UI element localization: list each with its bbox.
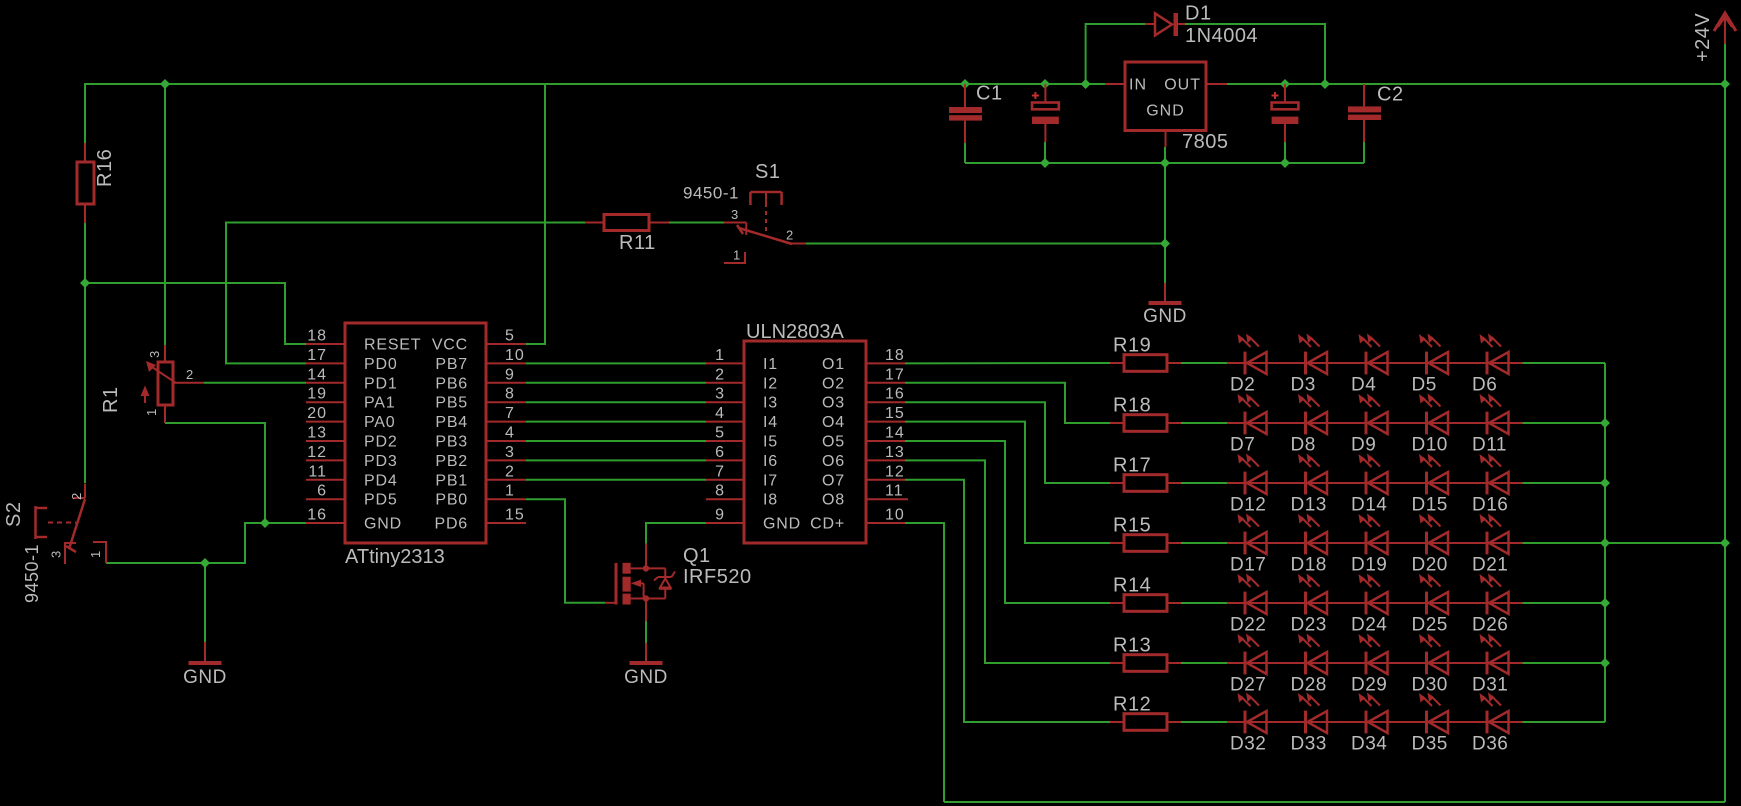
svg-text:R12: R12 [1113, 694, 1151, 716]
svg-text:2: 2 [505, 463, 515, 480]
svg-text:D19: D19 [1351, 555, 1387, 576]
wire resistor to LED row 5 [1181, 602, 1227, 604]
wire resistor to LED row 3 [1181, 482, 1227, 484]
svg-text:D13: D13 [1291, 495, 1327, 516]
svg-text:D36: D36 [1472, 734, 1508, 755]
pin 10 ATtiny right [486, 362, 526, 364]
svg-text:PB7: PB7 [435, 356, 468, 373]
wire resistor to LED row 1 [1181, 362, 1227, 364]
svg-text:PA1: PA1 [364, 395, 395, 412]
svg-text:GND: GND [1146, 103, 1185, 120]
svg-text:1: 1 [144, 408, 159, 416]
ground GND Q1 area [645, 643, 647, 661]
svg-text:3: 3 [731, 207, 739, 222]
wire LED row 1 to anode bus [1523, 362, 1606, 364]
svg-text:PB4: PB4 [435, 414, 468, 431]
svg-text:D6: D6 [1472, 375, 1497, 396]
wire +24V bottom [944, 801, 1725, 803]
LED D27 [1244, 652, 1247, 675]
wire PB0 pin1 to Q1 gate [526, 499, 605, 603]
pin 17 ULN right [866, 382, 905, 384]
wire R1 pin2 to PD1 pin14 [204, 382, 306, 384]
LED D14 [1365, 472, 1368, 495]
pin 1 ULN left [706, 362, 744, 364]
junction [1600, 538, 1610, 548]
svg-text:PD4: PD4 [364, 472, 398, 489]
resistor R11 [604, 215, 649, 231]
wire ULN O4 to R row 4 [905, 422, 1110, 543]
pin 3 ATtiny right [486, 459, 526, 461]
svg-text:17: 17 [307, 347, 327, 364]
junction [1160, 158, 1170, 168]
wire anode bus to +24V rail [1605, 542, 1725, 544]
junction [1280, 79, 1290, 89]
resistor R12 [1124, 714, 1167, 731]
svg-text:15: 15 [505, 507, 525, 524]
svg-text:I8: I8 [763, 492, 778, 509]
svg-text:OUT: OUT [1164, 77, 1201, 94]
pin 5 ULN left [706, 440, 744, 442]
svg-text:13: 13 [307, 425, 327, 442]
LED D12 [1244, 472, 1247, 495]
svg-text:18: 18 [885, 347, 905, 364]
svg-text:9: 9 [505, 366, 515, 383]
LED D26 [1486, 592, 1489, 615]
svg-text:R11: R11 [619, 232, 656, 254]
wire R1 pin1 down [165, 423, 265, 523]
svg-text:6: 6 [715, 444, 725, 461]
LED row 6 line [1227, 662, 1523, 664]
wire ULN O5 to R row 5 [905, 441, 1110, 603]
junction [1720, 538, 1730, 548]
switch S2 [84, 484, 86, 499]
wire PD0 pin17 to R11 [226, 223, 585, 364]
pin 20 ATtiny left [306, 421, 345, 423]
svg-text:I1: I1 [763, 356, 778, 373]
wire C1 bottom [964, 143, 966, 163]
svg-text:2: 2 [69, 492, 84, 500]
pin 9 ULN left [706, 522, 744, 524]
svg-text:D26: D26 [1472, 615, 1508, 636]
polarized capacitor C4 [1272, 103, 1299, 110]
svg-text:1N4004: 1N4004 [1185, 25, 1258, 47]
svg-text:R19: R19 [1113, 335, 1151, 357]
wire GND stub S2 area [204, 563, 206, 642]
svg-text:R13: R13 [1113, 635, 1151, 657]
svg-text:7: 7 [505, 405, 515, 422]
wire CD+ to bottom rail [905, 523, 944, 802]
LED row 1 line [1227, 362, 1523, 364]
svg-text:PD6: PD6 [434, 516, 468, 533]
wire resistor to LED row 4 [1181, 542, 1227, 544]
pin OUT 7805 [1206, 83, 1227, 85]
svg-text:GND: GND [1143, 306, 1187, 327]
pin 11 ULN right [866, 498, 908, 500]
LED D20 [1425, 532, 1428, 555]
LED D34 [1365, 711, 1368, 734]
wire LED row 2 to anode bus [1523, 422, 1606, 424]
svg-text:R18: R18 [1113, 395, 1151, 417]
svg-text:D17: D17 [1230, 555, 1266, 576]
svg-text:PD1: PD1 [364, 375, 398, 392]
wire +24V right rail [1724, 44, 1726, 802]
LED D17 [1244, 532, 1247, 555]
svg-text:GND: GND [624, 667, 668, 688]
svg-text:D22: D22 [1230, 615, 1266, 636]
svg-text:PB6: PB6 [435, 375, 468, 392]
svg-text:D33: D33 [1291, 734, 1327, 755]
LED D33 [1304, 711, 1307, 734]
wire LED row 6 to anode bus [1523, 662, 1606, 664]
svg-text:3: 3 [715, 386, 725, 403]
svg-text:VCC: VCC [432, 337, 468, 354]
polarized capacitor C3 [1032, 103, 1059, 110]
svg-text:IRF520: IRF520 [683, 566, 752, 588]
junction [1040, 79, 1050, 89]
pin 9 ATtiny right [486, 382, 526, 384]
svg-text:D29: D29 [1351, 675, 1387, 696]
LED row 2 line [1227, 422, 1523, 424]
pin 6 ATtiny left [306, 498, 345, 500]
capacitor C2 [1348, 106, 1381, 112]
svg-text:D28: D28 [1291, 675, 1327, 696]
potentiometer R1 [158, 362, 173, 405]
svg-text:1: 1 [88, 550, 103, 558]
svg-text:7805: 7805 [1182, 131, 1229, 153]
LED D30 [1425, 652, 1428, 675]
svg-text:D24: D24 [1351, 615, 1387, 636]
LED D24 [1365, 592, 1368, 615]
LED D22 [1244, 592, 1247, 615]
pin 8 ULN left [706, 498, 744, 500]
wire resistor to LED row 7 [1181, 721, 1227, 723]
wire LED row 3 to anode bus [1523, 482, 1606, 484]
svg-text:7: 7 [715, 463, 725, 480]
svg-text:3: 3 [49, 550, 64, 558]
resistor R13 [1124, 655, 1167, 672]
svg-text:GND: GND [763, 516, 801, 533]
svg-text:O8: O8 [822, 492, 845, 509]
svg-text:12: 12 [307, 444, 327, 461]
pin 7 ULN left [706, 479, 744, 481]
svg-text:12: 12 [885, 463, 905, 480]
wire capacitor bottom bus [965, 162, 1364, 164]
svg-text:18: 18 [307, 328, 327, 345]
svg-text:D18: D18 [1291, 555, 1327, 576]
wire R11 to S1 pin3 [669, 222, 724, 224]
LED D4 [1365, 352, 1368, 375]
svg-text:9450-1: 9450-1 [22, 544, 42, 603]
svg-text:D2: D2 [1230, 375, 1255, 396]
wire ULN O3 to R row 3 [905, 402, 1110, 483]
svg-text:S1: S1 [755, 161, 780, 183]
svg-text:D27: D27 [1230, 675, 1266, 696]
pin 2 ULN left [706, 382, 744, 384]
svg-text:D34: D34 [1351, 734, 1387, 755]
svg-text:GND: GND [364, 516, 402, 533]
LED D32 [1244, 711, 1247, 734]
wire LED row 7 to anode bus [1523, 721, 1606, 723]
svg-text:8: 8 [715, 483, 725, 500]
svg-text:GND: GND [183, 667, 227, 688]
junction [1600, 598, 1610, 608]
LED D10 [1425, 412, 1428, 435]
LED D23 [1304, 592, 1307, 615]
pin 19 ATtiny left [306, 401, 345, 403]
wire 7805 GND [1164, 147, 1166, 163]
LED row 5 line [1227, 602, 1523, 604]
wire C3 bottom [1044, 142, 1046, 163]
junction [80, 278, 90, 288]
LED D36 [1486, 711, 1489, 734]
svg-text:+24V: +24V [1692, 13, 1714, 62]
wire Q1 source to GND [645, 621, 647, 643]
svg-text:9: 9 [715, 507, 725, 524]
svg-text:15: 15 [885, 405, 905, 422]
LED D15 [1425, 472, 1428, 495]
svg-text:PD0: PD0 [364, 356, 398, 373]
svg-text:D21: D21 [1472, 555, 1508, 576]
svg-text:16: 16 [307, 507, 327, 524]
svg-text:ATtiny2313: ATtiny2313 [345, 546, 445, 568]
wire ULN O6 to R row 6 [905, 460, 1110, 663]
IC U1 ATtiny2313 body [345, 323, 486, 543]
pin 3 ULN left [706, 401, 744, 403]
svg-text:16: 16 [885, 386, 905, 403]
wire +24V top rail [84, 83, 1105, 85]
pin 10 ULN right [866, 522, 905, 524]
resistor R19 [1124, 355, 1167, 372]
pin 15 ULN right [866, 421, 905, 423]
pin 5 ATtiny right [486, 343, 526, 345]
pin 2 ATtiny right [486, 479, 526, 481]
svg-text:D14: D14 [1351, 495, 1387, 516]
svg-text:D31: D31 [1472, 675, 1508, 696]
wire VCC pin 5 [526, 84, 545, 344]
junction [260, 518, 270, 528]
svg-text:14: 14 [307, 366, 327, 383]
resistor R14 [1124, 595, 1167, 612]
LED D16 [1486, 472, 1489, 495]
svg-text:O4: O4 [822, 414, 845, 431]
svg-text:PB3: PB3 [435, 434, 468, 451]
svg-text:R15: R15 [1113, 515, 1151, 537]
LED row 4 line [1227, 542, 1523, 544]
wire D1 bypass right [1185, 24, 1325, 84]
junction [1081, 79, 1091, 89]
svg-text:I3: I3 [763, 395, 778, 412]
svg-text:R1: R1 [100, 386, 122, 413]
pin 13 ULN right [866, 459, 905, 461]
LED D31 [1486, 652, 1489, 675]
svg-text:14: 14 [885, 425, 905, 442]
wire LED row 5 to anode bus [1523, 602, 1606, 604]
svg-text:I5: I5 [763, 434, 778, 451]
svg-text:D16: D16 [1472, 495, 1508, 516]
wire left vertical R16 top [84, 84, 86, 143]
svg-text:1: 1 [733, 248, 741, 263]
wire resistor to LED row 2 [1181, 422, 1227, 424]
junction [1160, 239, 1170, 249]
LED D13 [1304, 472, 1307, 495]
LED row 3 line [1227, 482, 1523, 484]
LED D6 [1486, 352, 1489, 375]
svg-text:D9: D9 [1351, 435, 1376, 456]
svg-text:ULN2803A: ULN2803A [746, 321, 845, 343]
LED D9 [1365, 412, 1368, 435]
LED D8 [1304, 412, 1307, 435]
pin 16 ULN right [866, 401, 905, 403]
LED D11 [1486, 412, 1489, 435]
wire PB1 to ULN I7 [526, 479, 706, 481]
svg-text:R17: R17 [1113, 455, 1151, 477]
wire R1 pin3 from rail [164, 84, 166, 345]
svg-text:11: 11 [308, 463, 327, 480]
pin 7 ATtiny right [486, 421, 526, 423]
switch S1 [724, 222, 746, 224]
svg-text:17: 17 [885, 366, 905, 383]
pin 6 ULN left [706, 459, 744, 461]
svg-text:D10: D10 [1412, 435, 1448, 456]
wire ULN O7 to R row 7 [905, 480, 1110, 722]
svg-text:D1: D1 [1185, 3, 1212, 25]
wire PB3 to ULN I5 [526, 440, 706, 442]
svg-text:I7: I7 [763, 472, 778, 489]
svg-text:PB0: PB0 [435, 492, 468, 509]
svg-text:PD2: PD2 [364, 434, 398, 451]
svg-text:3: 3 [147, 350, 162, 358]
junction [1720, 79, 1730, 89]
svg-text:D3: D3 [1291, 375, 1316, 396]
svg-text:D5: D5 [1412, 375, 1437, 396]
pin 17 ATtiny left [306, 362, 345, 364]
pin 14 ATtiny left [306, 382, 345, 384]
svg-text:C1: C1 [976, 83, 1003, 105]
svg-text:D23: D23 [1291, 615, 1327, 636]
pin 11 ATtiny left [306, 479, 345, 481]
junction [200, 558, 210, 568]
pin IN 7805 [1105, 83, 1125, 85]
svg-text:D11: D11 [1472, 435, 1507, 456]
wire C4 bottom [1284, 142, 1286, 163]
LED D5 [1425, 352, 1428, 375]
svg-text:1: 1 [715, 347, 725, 364]
wire LED row 4 to anode bus [1523, 542, 1606, 544]
wire PB4 to ULN I4 [526, 421, 706, 423]
wire resistor to LED row 6 [1181, 662, 1227, 664]
svg-text:O7: O7 [822, 472, 845, 489]
svg-text:4: 4 [505, 425, 515, 442]
svg-text:5: 5 [715, 425, 725, 442]
svg-text:O5: O5 [822, 434, 845, 451]
LED D7 [1244, 412, 1247, 435]
LED D21 [1486, 532, 1489, 555]
svg-text:PA0: PA0 [364, 414, 395, 431]
capacitor C1 [949, 107, 982, 113]
svg-text:PD3: PD3 [364, 453, 398, 470]
svg-text:PB2: PB2 [435, 453, 468, 470]
pin 1 ATtiny right [486, 498, 526, 500]
LED D29 [1365, 652, 1368, 675]
LED D19 [1365, 532, 1368, 555]
svg-text:6: 6 [317, 483, 327, 500]
pin 4 ULN left [706, 421, 744, 423]
junction [1040, 158, 1050, 168]
wire C2 bottom [1363, 142, 1365, 163]
voltage regulator 7805 body [1125, 62, 1206, 131]
wire PB6 to ULN I2 [526, 382, 706, 384]
svg-text:D35: D35 [1412, 734, 1448, 755]
LED D3 [1304, 352, 1307, 375]
svg-text:O2: O2 [822, 375, 845, 392]
svg-text:20: 20 [307, 405, 327, 422]
wire PB5 to ULN I3 [526, 401, 706, 403]
svg-text:C2: C2 [1377, 84, 1404, 106]
svg-text:13: 13 [885, 444, 905, 461]
svg-text:D8: D8 [1291, 435, 1316, 456]
svg-text:PB5: PB5 [435, 395, 468, 412]
wire PB7 to ULN I1 [526, 362, 706, 364]
wire power GND vertical [1164, 163, 1166, 283]
svg-text:PD5: PD5 [364, 492, 398, 509]
svg-text:O1: O1 [822, 356, 845, 373]
svg-text:D20: D20 [1412, 555, 1448, 576]
transistor Q1 IRF520 [615, 563, 618, 605]
svg-text:D30: D30 [1412, 675, 1448, 696]
junction [1600, 658, 1610, 668]
diode D1 1N4004 [1145, 23, 1155, 25]
wire LED anode bus [1604, 363, 1606, 722]
pin 12 ATtiny left [306, 459, 345, 461]
svg-text:I6: I6 [763, 453, 778, 470]
wire D1 bypass left [1086, 24, 1145, 84]
svg-text:10: 10 [885, 507, 905, 524]
pin 15 ATtiny right [486, 522, 526, 524]
LED D2 [1244, 352, 1247, 375]
pin 14 ULN right [866, 440, 905, 442]
wire ULN O1 to R row 1 [905, 362, 1110, 364]
wire ULN O2 to R row 2 [905, 383, 1110, 423]
LED D18 [1304, 532, 1307, 555]
svg-text:4: 4 [715, 405, 725, 422]
resistor R17 [1124, 475, 1167, 492]
wire node to RESET pin 18 [85, 283, 306, 344]
svg-text:PB1: PB1 [435, 472, 468, 489]
supply +24V arrow [1714, 13, 1736, 31]
pin 16 ATtiny left [306, 522, 345, 524]
svg-text:1: 1 [505, 483, 515, 500]
svg-text:11: 11 [885, 483, 904, 500]
junction [960, 79, 970, 89]
svg-text:D4: D4 [1351, 375, 1376, 396]
svg-text:I2: I2 [763, 375, 778, 392]
svg-text:R14: R14 [1113, 575, 1151, 597]
svg-text:D25: D25 [1412, 615, 1448, 636]
pin 12 ULN right [866, 479, 905, 481]
pin 18 ULN right [866, 362, 905, 364]
junction [1600, 478, 1610, 488]
junction [1600, 418, 1610, 428]
svg-text:10: 10 [505, 347, 525, 364]
svg-text:D7: D7 [1230, 435, 1255, 456]
wire PB2 to ULN I6 [526, 459, 706, 461]
resistor R16 [77, 162, 94, 204]
svg-text:2: 2 [786, 228, 794, 243]
wire GND net to pin16 [106, 523, 306, 563]
svg-text:2: 2 [715, 366, 725, 383]
svg-text:5: 5 [505, 328, 515, 345]
svg-text:2: 2 [186, 367, 194, 382]
